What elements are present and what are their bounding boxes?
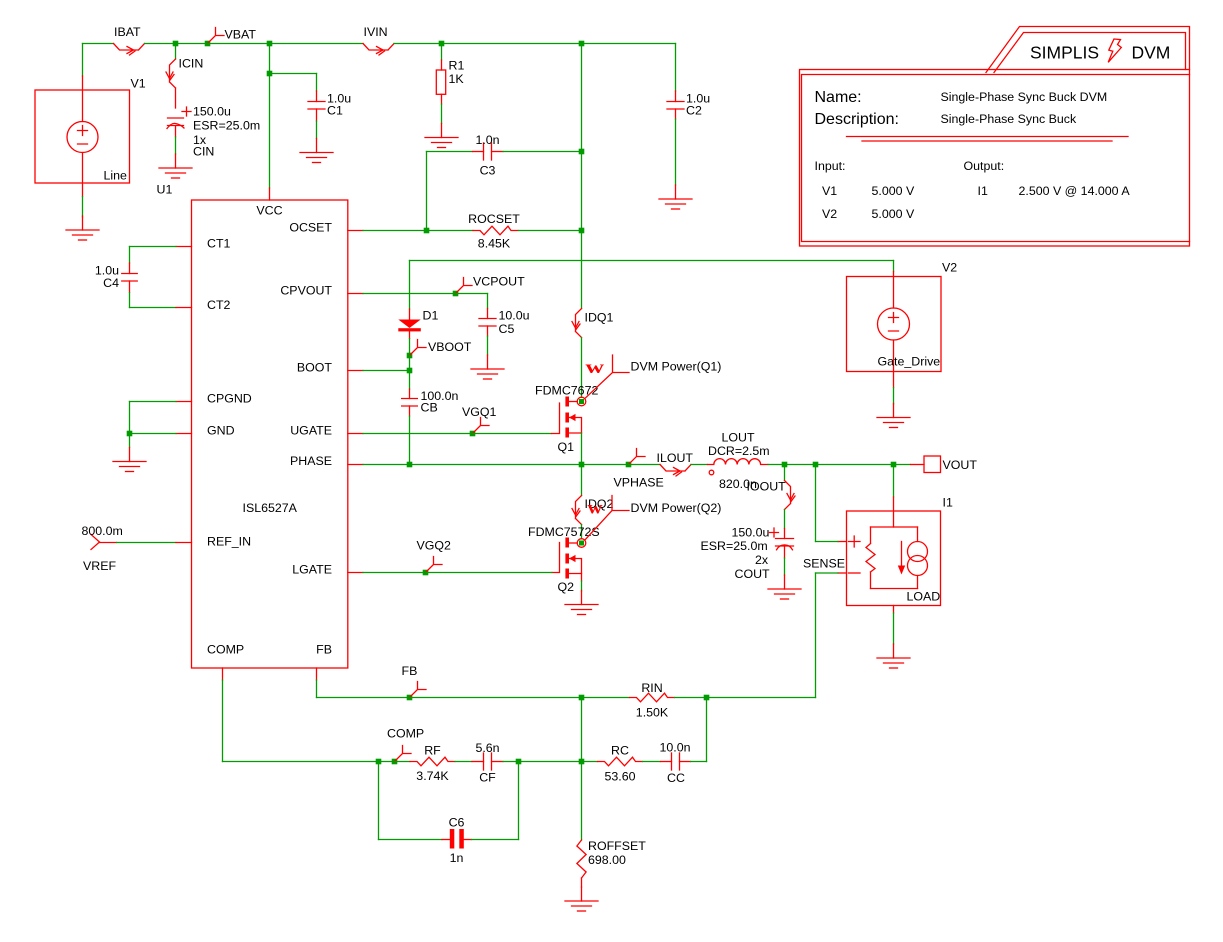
svg-text:CIN: CIN: [193, 145, 214, 159]
wire C2 to ground: [675, 119, 677, 185]
pin OCSET stub: [348, 230, 363, 232]
ground C5: [471, 355, 504, 379]
wire IDQ2 to Q2 drain: [581, 525, 583, 539]
capacitor CIN curved plate: [167, 123, 184, 128]
svg-text:Single-Phase Sync Buck: Single-Phase Sync Buck: [941, 112, 1077, 126]
junction Q1 drain: [579, 399, 584, 404]
wire VCC node to IVIN: [270, 43, 364, 45]
svg-text:C1: C1: [327, 104, 343, 118]
wire V1 to IBAT: [83, 43, 114, 45]
wire CPVOUT to C5: [456, 293, 488, 295]
wire C4 bottom lead: [129, 281, 131, 293]
voltage probe VCPOUT: [456, 278, 473, 294]
svg-text:2x: 2x: [755, 553, 769, 567]
ground C2: [659, 185, 692, 209]
wire CT2 wire: [130, 307, 177, 309]
svg-text:SENSE: SENSE: [803, 557, 845, 571]
svg-text:GND: GND: [207, 424, 235, 438]
svg-text:CF: CF: [479, 771, 496, 785]
wire IDQ1 to Q1 drain: [581, 338, 583, 398]
wire FB to RIN: [582, 697, 630, 699]
wire IOOUT to COUT: [784, 510, 786, 529]
svg-text:C4: C4: [103, 276, 119, 290]
wire VREF wire: [117, 542, 177, 544]
svg-text:LGATE: LGATE: [292, 563, 332, 577]
resistor R1: [441, 60, 443, 70]
wire PHASE wire 2: [410, 464, 582, 466]
capacitor COUT curved plate: [777, 545, 793, 550]
capacitor CF: [484, 753, 492, 770]
wire C5 top lead: [487, 309, 489, 319]
wire Q1 source to PHASE: [581, 433, 583, 465]
transistor Q2 FDMC7572S: [552, 538, 582, 579]
pin VCC stub: [269, 188, 271, 200]
wire IOOUT node to SENSE+ node: [785, 464, 816, 466]
junction SENSE+ node: [813, 462, 819, 468]
wire CF right lead: [492, 761, 504, 763]
wire BOOT to CB: [409, 371, 411, 390]
svg-text:RC: RC: [611, 744, 629, 758]
svg-text:ESR=25.0m: ESR=25.0m: [193, 119, 260, 133]
capacitor C6: [442, 839, 450, 841]
terminal plus sign: [849, 536, 861, 547]
title block inner border: [802, 75, 1190, 242]
wire COMP to RF: [395, 761, 411, 763]
wire COUT bottom lead: [784, 547, 786, 558]
junction FB main node: [579, 695, 585, 701]
svg-text:V1: V1: [131, 77, 146, 91]
junction GND node: [127, 431, 133, 437]
wire ROCSET to main column: [519, 230, 582, 232]
wire C6 left column: [378, 762, 380, 840]
ground Q2: [565, 591, 598, 615]
svg-text:VPHASE: VPHASE: [614, 476, 664, 490]
svg-text:DVM Power(Q1): DVM Power(Q1): [631, 360, 722, 374]
junction PHASE node: [579, 462, 585, 468]
svg-text:1K: 1K: [449, 72, 465, 86]
wire CB to PHASE: [409, 416, 411, 465]
input terminal VREF chevron: [91, 535, 100, 550]
current probe ILOUT: [660, 465, 691, 472]
svg-text:U1: U1: [157, 183, 173, 197]
power probe DVM Power(Q2): [585, 496, 629, 541]
wire C3 left wire: [427, 151, 473, 153]
wire C5 bottom lead: [487, 326, 489, 336]
svg-text:ILOUT: ILOUT: [657, 451, 694, 465]
svg-text:BOOT: BOOT: [297, 361, 333, 375]
pin CPGND stub: [176, 401, 192, 403]
wire IBAT to ICIN node: [145, 43, 176, 45]
junction ICIN node: [173, 41, 179, 47]
wire ROFFSET to ground: [581, 878, 583, 887]
wire CC to corner: [691, 761, 707, 763]
voltage probe VGQ2: [426, 557, 443, 573]
wire C6 node to COMP probe: [379, 761, 395, 763]
svg-text:I1: I1: [943, 496, 953, 510]
svg-text:VREF: VREF: [83, 559, 116, 573]
current source I1 arrow: [901, 542, 903, 571]
wire SENSE- vertical: [815, 573, 817, 698]
current probe IOOUT: [785, 481, 791, 510]
svg-text:LOAD: LOAD: [907, 590, 941, 604]
wire PHASE wire: [363, 464, 410, 466]
ground C1: [300, 139, 333, 163]
current source I1 LOAD box: [893, 497, 895, 527]
svg-text:10.0u: 10.0u: [499, 309, 530, 323]
resistor RC: [598, 757, 643, 766]
wire OCSET wire: [363, 230, 427, 232]
wire CIN bottom lead: [175, 126, 177, 137]
wire COUT top lead: [784, 529, 786, 539]
svg-text:C6: C6: [449, 816, 465, 830]
node Q1 drain ring: [577, 397, 586, 406]
wire FB pin down: [316, 680, 318, 698]
junction C3 node: [579, 149, 585, 155]
wire V1 top lead: [82, 44, 84, 77]
wire COUT to ground: [784, 558, 786, 575]
pin CT2 stub: [176, 307, 192, 309]
svg-text:C5: C5: [499, 322, 515, 336]
svg-text:VCC: VCC: [256, 204, 282, 218]
pin FB stub: [316, 668, 318, 680]
wire UGATE wire: [363, 433, 473, 435]
capacitor C4: [122, 274, 138, 282]
wire CT1 wire: [130, 246, 177, 248]
junction COMP main node: [579, 759, 585, 765]
wire CB bottom lead: [409, 406, 411, 416]
pin CT1 stub: [176, 246, 192, 248]
inductor LOUT polarity dot: [709, 470, 714, 475]
wire main column top: [581, 44, 583, 152]
svg-text:VGQ1: VGQ1: [462, 405, 497, 419]
wire C3 right lead: [492, 151, 504, 153]
svg-text:Input:: Input:: [815, 159, 846, 173]
current source I1 circles: [908, 542, 928, 562]
capacitor CC: [672, 753, 680, 770]
pin BOOT stub: [348, 370, 363, 372]
svg-text:FDMC7572S: FDMC7572S: [528, 525, 600, 539]
resistor RF: [410, 757, 455, 766]
wire CF to C6 right node: [503, 761, 519, 763]
wire VBAT node to VCC node: [208, 43, 270, 45]
svg-text:Description:: Description:: [815, 111, 899, 128]
wire C6 right wire: [472, 839, 519, 841]
wire ICIN to CIN: [175, 88, 177, 108]
junction CC column node: [704, 695, 710, 701]
wire LGATE to Q2 gate: [426, 572, 553, 574]
wire C1 to ground: [316, 121, 318, 139]
wire C4 column top: [129, 247, 131, 264]
wire C6 right column: [518, 762, 520, 840]
svg-text:C3: C3: [480, 164, 496, 178]
wire COMP pin down: [222, 680, 224, 762]
diode D1: [409, 309, 411, 320]
junction VGQ1 node: [470, 431, 476, 437]
wire R1 node down: [441, 44, 443, 61]
junction IOOUT node: [782, 462, 788, 468]
wire V2 to ground: [893, 388, 895, 405]
svg-text:IDQ1: IDQ1: [585, 311, 614, 325]
wire ICIN node down: [175, 44, 177, 60]
wire Q2 source to ground: [581, 581, 583, 591]
junction VCC node: [267, 41, 273, 47]
junction C6 right node: [516, 759, 522, 765]
capacitor CB: [402, 399, 418, 407]
svg-text:Q1: Q1: [558, 440, 575, 454]
wire GND down: [129, 434, 131, 448]
terminal VOUT: [911, 464, 925, 466]
voltage probe COMP: [395, 746, 412, 762]
ground CIN: [159, 154, 192, 178]
junction BOOT node: [407, 368, 413, 374]
junction top rail main column node: [579, 41, 585, 47]
load internal circuit: [866, 527, 918, 589]
svg-text:ESR=25.0m: ESR=25.0m: [701, 539, 768, 553]
wire VREF lead: [100, 542, 117, 544]
wire CPGND wire: [130, 401, 177, 403]
wire gate drive rail down: [893, 261, 895, 272]
ground V1: [66, 216, 99, 240]
svg-text:ISL6527A: ISL6527A: [243, 501, 298, 515]
wire C1 branch down: [316, 74, 318, 92]
wire RIN to CC node: [675, 697, 707, 699]
svg-text:COUT: COUT: [735, 567, 771, 581]
wire CIN to ground: [175, 137, 177, 154]
svg-text:CT1: CT1: [207, 237, 231, 251]
junction ROCSET left node: [424, 228, 430, 234]
svg-text:FB: FB: [402, 664, 418, 678]
pin GND stub: [176, 433, 192, 435]
transistor Q1 FDMC7672: [552, 397, 582, 438]
junction R1 node: [439, 41, 445, 47]
svg-text:VBOOT: VBOOT: [428, 340, 472, 354]
capacitor C5: [479, 319, 496, 327]
wire C5 column: [487, 294, 489, 309]
svg-text:REF_IN: REF_IN: [207, 535, 251, 549]
node Q2 drain ring: [577, 539, 586, 548]
svg-text:1n: 1n: [450, 851, 464, 865]
pin LGATE stub: [348, 572, 363, 574]
ground GND: [113, 448, 146, 472]
wire C2 bottom lead: [675, 109, 677, 119]
wire CC left lead: [661, 761, 672, 763]
svg-text:5.6n: 5.6n: [475, 741, 499, 755]
svg-text:Gate_Drive: Gate_Drive: [878, 355, 941, 369]
wire Q2 source down: [581, 574, 583, 582]
wire R1 node to main column: [442, 43, 582, 45]
wire SENSE- horizontal: [816, 572, 839, 574]
wire FB wire: [317, 697, 410, 699]
svg-text:DCR=2.5m: DCR=2.5m: [708, 444, 770, 458]
wire V1 to ground: [82, 197, 84, 218]
pin UGATE stub: [348, 433, 363, 435]
inductor LOUT: [708, 459, 769, 465]
svg-text:w: w: [588, 498, 603, 518]
svg-text:IVIN: IVIN: [364, 25, 388, 39]
wire FB node to COMP node: [581, 698, 583, 762]
wire RC to CC: [643, 761, 661, 763]
wire CF left lead: [472, 761, 484, 763]
wire C3 right wire: [503, 151, 582, 153]
ground LOAD: [877, 644, 910, 668]
svg-text:VBAT: VBAT: [225, 28, 257, 42]
junction C1 branch node: [267, 71, 273, 77]
svg-text:53.60: 53.60: [604, 770, 635, 784]
svg-text:CPVOUT: CPVOUT: [280, 284, 332, 298]
wire COMP wire: [223, 761, 379, 763]
wire VOUT node to LOAD: [893, 465, 895, 498]
resistor ROFFSET: [577, 840, 586, 878]
wire C4 top lead: [129, 263, 131, 274]
voltage source V2 symbol: [893, 272, 895, 388]
wire OCSET to ROCSET: [427, 230, 474, 232]
wire PHASE to ILOUT: [629, 464, 661, 466]
svg-text:V2: V2: [942, 261, 957, 275]
wire SENSE+ vertical: [815, 465, 817, 542]
current probe ICIN: [170, 59, 176, 88]
svg-text:10.0n: 10.0n: [659, 741, 690, 755]
voltage source V1 box: [35, 90, 130, 183]
voltage source V1 symbol: [82, 76, 84, 197]
svg-text:FB: FB: [316, 643, 332, 657]
wire CPGND to GND column: [129, 402, 131, 434]
wire main column mid: [581, 152, 583, 231]
svg-text:UGATE: UGATE: [290, 424, 332, 438]
svg-text:2.500 V @ 14.000 A: 2.500 V @ 14.000 A: [1019, 184, 1131, 198]
junction C6 left node: [376, 759, 382, 765]
wire D1 column: [409, 261, 411, 310]
wire C1 branch: [270, 73, 317, 75]
voltage probe VPHASE: [629, 449, 646, 465]
wire C1 top lead: [316, 91, 318, 102]
svg-text:Q2: Q2: [558, 580, 575, 594]
svg-text:5.000 V: 5.000 V: [872, 184, 915, 198]
svg-text:5.000 V: 5.000 V: [872, 207, 915, 221]
wire VCC node down: [269, 44, 271, 74]
wire SENSE+ horizontal: [816, 541, 839, 543]
svg-text:VGQ2: VGQ2: [417, 539, 452, 553]
svg-text:1.50K: 1.50K: [636, 706, 669, 720]
wire FB to main node: [410, 697, 582, 699]
voltage probe VBOOT: [410, 340, 427, 356]
svg-text:8.45K: 8.45K: [478, 237, 511, 251]
svg-text:DVM Power(Q2): DVM Power(Q2): [631, 501, 722, 515]
wire LGATE wire: [363, 572, 426, 574]
junction CB bottom node: [407, 462, 413, 468]
wire C6 node to main: [519, 761, 582, 763]
wire R1 to ground: [441, 104, 443, 124]
wire C3 left lead: [473, 151, 484, 153]
wire CB top lead: [409, 389, 411, 399]
current probe IBAT: [114, 44, 145, 51]
svg-text:Line: Line: [104, 169, 128, 183]
wire C2 column down: [675, 44, 677, 92]
pin CPVOUT stub: [348, 293, 363, 295]
svg-text:V2: V2: [822, 207, 837, 221]
wire main to RC: [582, 761, 598, 763]
svg-text:CB: CB: [421, 401, 438, 415]
capacitor C3: [484, 143, 492, 160]
wire VOUT node to terminal: [894, 464, 911, 466]
svg-text:Output:: Output:: [964, 159, 1005, 173]
junction VBAT node: [205, 41, 211, 47]
wire SENSE- to FB rail: [707, 697, 816, 699]
title block outer border: [800, 70, 1190, 247]
wire C2 top lead: [675, 91, 677, 102]
junction Q2 drain: [579, 541, 584, 546]
junction VCPOUT node: [453, 291, 459, 297]
op-amp U2 ISL6527A box: [192, 200, 348, 668]
pin COMP stub: [222, 668, 224, 680]
wire IVIN to R1 node: [394, 43, 442, 45]
svg-text:Name:: Name:: [815, 89, 862, 106]
wire CC column up: [706, 698, 708, 762]
title tab outline: [986, 27, 1190, 73]
svg-text:R1: R1: [449, 59, 465, 73]
svg-text:COMP: COMP: [387, 727, 424, 741]
junction VBOOT node: [407, 353, 413, 359]
wire VCC column: [269, 74, 271, 189]
pin REF_IN stub: [176, 542, 192, 544]
pin LOAD sense- stub: [838, 572, 847, 574]
wire C4 column bottom: [129, 293, 131, 308]
capacitor C1: [308, 102, 325, 110]
wire D1 to VBOOT node: [409, 339, 411, 356]
voltage source V2 box: [847, 277, 942, 372]
svg-text:DVM: DVM: [1132, 43, 1171, 63]
pin PHASE stub: [348, 464, 363, 466]
junction COMP probe node: [392, 759, 398, 765]
wire ILOUT to LOUT: [691, 464, 708, 466]
svg-text:3.74K: 3.74K: [416, 769, 449, 783]
svg-text:ROFFSET: ROFFSET: [588, 839, 646, 853]
voltage probe FB: [410, 682, 427, 698]
terminal minus sign: [849, 572, 861, 574]
svg-text:Single-Phase Sync Buck DVM: Single-Phase Sync Buck DVM: [941, 90, 1108, 104]
svg-text:RIN: RIN: [641, 681, 662, 695]
svg-text:CC: CC: [667, 771, 685, 785]
junction VPHASE node: [626, 462, 632, 468]
svg-text:150.0u: 150.0u: [732, 526, 770, 540]
current probe IVIN: [363, 44, 394, 51]
wire RF to CF: [455, 761, 472, 763]
wire IOOUT column: [784, 465, 786, 481]
wire LOAD to ground: [893, 613, 895, 644]
junction VOUT node: [891, 462, 897, 468]
ground ROFFSET: [565, 887, 598, 911]
capacitor C2: [667, 102, 684, 110]
svg-text:PHASE: PHASE: [290, 454, 332, 468]
wire top rail to C2: [582, 43, 676, 45]
current probe IDQ2: [576, 496, 582, 525]
wire SENSE+ node to VOUT node: [816, 464, 894, 466]
ground V2: [877, 404, 910, 428]
power probe DVM Power(Q1): [585, 355, 629, 399]
svg-text:150.0u: 150.0u: [193, 105, 231, 119]
wire gate drive rail: [410, 260, 894, 262]
junction ROCSET right node: [579, 228, 585, 234]
svg-text:V1: V1: [822, 184, 837, 198]
capacitor COUT plus sign: [770, 528, 779, 537]
wire PHASE to IDQ2: [581, 465, 583, 496]
ground R1: [425, 124, 458, 148]
svg-text:I1: I1: [978, 184, 988, 198]
svg-text:w: w: [586, 357, 605, 377]
svg-text:698.00: 698.00: [588, 853, 626, 867]
voltage probe VGQ1: [473, 418, 490, 434]
red double underline: [847, 137, 1129, 142]
svg-text:SIMPLIS: SIMPLIS: [1030, 43, 1099, 63]
